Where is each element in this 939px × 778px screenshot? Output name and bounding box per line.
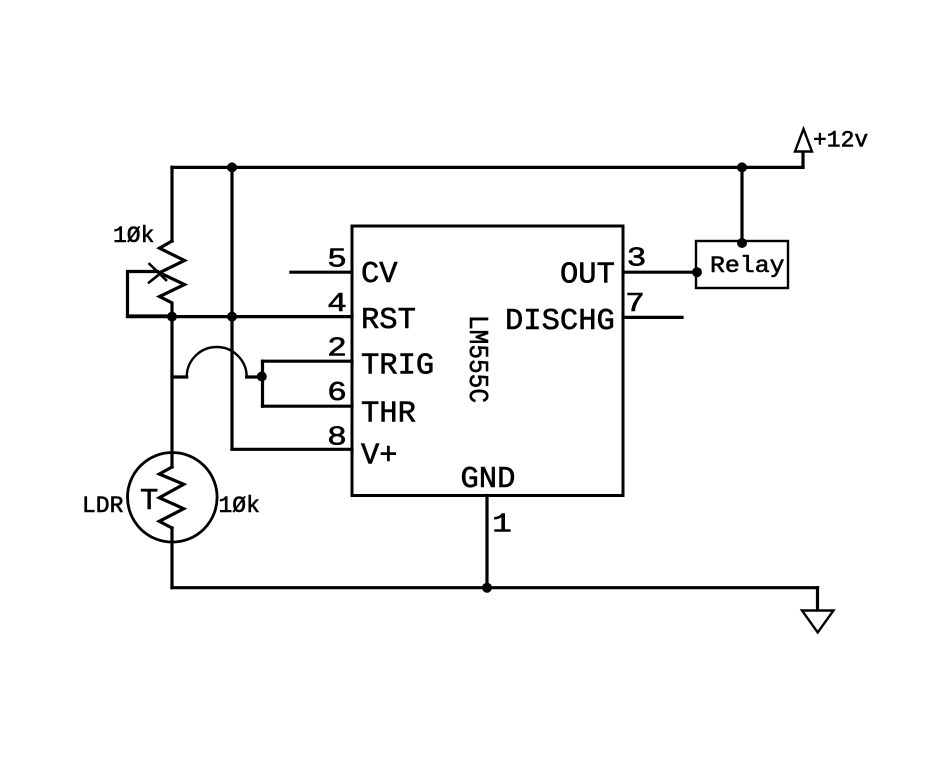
svg-text:1Øk: 1Øk bbox=[219, 493, 260, 519]
svg-text:5: 5 bbox=[327, 245, 347, 275]
svg-text:THR: THR bbox=[361, 398, 416, 432]
svg-text:6: 6 bbox=[327, 378, 347, 408]
svg-text:OUT: OUT bbox=[560, 259, 615, 293]
svg-text:TRIG: TRIG bbox=[361, 350, 434, 384]
svg-text:T: T bbox=[140, 485, 158, 519]
svg-text:DISCHG: DISCHG bbox=[505, 305, 615, 339]
svg-text:4: 4 bbox=[327, 289, 347, 319]
svg-text:1Øk: 1Øk bbox=[113, 223, 154, 249]
svg-text:V+: V+ bbox=[361, 439, 398, 473]
svg-text:7: 7 bbox=[625, 289, 645, 319]
svg-text:2: 2 bbox=[327, 334, 347, 364]
svg-text:CV: CV bbox=[361, 258, 398, 292]
svg-text:LM555C: LM555C bbox=[461, 315, 491, 403]
svg-text:GND: GND bbox=[461, 463, 516, 497]
svg-text:8: 8 bbox=[327, 423, 347, 453]
svg-text:LDR: LDR bbox=[82, 493, 124, 519]
svg-text:1: 1 bbox=[492, 510, 512, 540]
svg-text:3: 3 bbox=[627, 244, 647, 274]
svg-text:+12v: +12v bbox=[813, 128, 868, 154]
svg-text:RST: RST bbox=[361, 304, 416, 338]
svg-text:Relay: Relay bbox=[710, 253, 785, 279]
